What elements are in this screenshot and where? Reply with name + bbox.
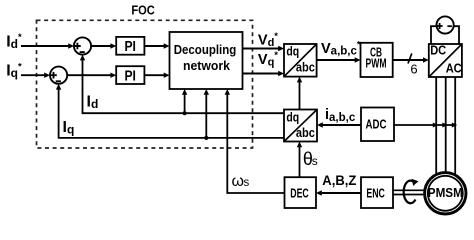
svg-text:PI: PI [124, 38, 136, 55]
svg-text:6: 6 [410, 61, 417, 76]
svg-text:FOC: FOC [131, 3, 155, 18]
svg-text:Vq*: Vq* [258, 50, 278, 68]
svg-text:abc: abc [296, 126, 315, 140]
theta_s wire U2 to U1 [299, 81, 301, 110]
svg-text:dq: dq [286, 45, 299, 59]
bus slash (6 lines) [408, 53, 412, 63]
wire PI2 to decoupling network [144, 74, 165, 76]
svg-text:DEC: DEC [290, 186, 309, 201]
junction Id to decoupling [183, 111, 187, 115]
svg-text:PWM: PWM [366, 56, 387, 71]
svg-text:Decoupling: Decoupling [174, 43, 237, 57]
motor shaft [393, 189, 424, 191]
ENC block [361, 177, 393, 208]
phase line a [435, 77, 437, 176]
wire ADC to abc/dq transform [321, 124, 361, 126]
wire U1 to CB PWM [317, 59, 357, 61]
DEC block [285, 177, 317, 208]
dq to abc transform U1 [284, 44, 317, 77]
wire Id* to summing junction S1 [21, 45, 69, 47]
FOC dashed boundary [37, 20, 253, 148]
svg-text:s: s [312, 154, 318, 168]
svg-text:s: s [244, 177, 250, 189]
svg-text:DC: DC [430, 43, 447, 58]
svg-text:Iq: Iq [63, 119, 75, 137]
wire Vd* decoupling to dq/abc [243, 48, 281, 50]
svg-text:Vd*: Vd* [258, 31, 278, 49]
PI controller PI1 [116, 37, 144, 55]
omega_s wire DEC to decoupling network [227, 94, 284, 194]
svg-text:Va,b,c*: Va,b,c* [321, 40, 361, 58]
svg-text:Iq*: Iq* [6, 61, 22, 80]
svg-text:dq: dq [286, 110, 299, 124]
DC/AC inverter block [429, 44, 462, 77]
wire ENC to DEC [320, 192, 361, 194]
wire DC source to inverter [431, 26, 459, 44]
phase line c [454, 77, 456, 176]
svg-text:Id: Id [87, 93, 99, 111]
wire S2 to PI2 [67, 74, 112, 76]
CB PWM block [361, 43, 393, 77]
wire Iq* to summing junction S2 [21, 74, 45, 76]
ADC block [361, 108, 394, 142]
motor PMSM [425, 173, 466, 214]
DC source V1 [437, 16, 454, 33]
svg-text:PMSM: PMSM [428, 185, 463, 200]
summing junction S2 [50, 67, 67, 84]
junction Iq to decoupling [204, 136, 208, 140]
feedback wire Iq [59, 88, 284, 138]
rotation arrow [404, 181, 416, 204]
svg-text:ia,b,c: ia,b,c [325, 107, 356, 124]
svg-text:ADC: ADC [366, 116, 387, 131]
current tap wire to ADC [394, 124, 455, 126]
svg-text:PI: PI [124, 67, 136, 84]
svg-text:ENC: ENC [366, 186, 385, 201]
svg-text:A,B,Z: A,B,Z [322, 172, 356, 188]
theta_s wire DEC to U2 [299, 146, 301, 177]
wire PI1 to decoupling network [144, 45, 165, 47]
decoupling network block [170, 32, 243, 89]
svg-text:ω: ω [232, 173, 245, 190]
summing junction S1 [74, 37, 91, 54]
svg-text:Id*: Id* [6, 32, 22, 51]
phase line b [445, 77, 447, 173]
svg-text:abc: abc [296, 61, 315, 75]
wire Vq* decoupling to dq/abc [243, 73, 281, 75]
wire CB PWM to DC/AC inverter [393, 59, 425, 61]
svg-text:network: network [183, 59, 230, 73]
PI controller PI2 [116, 66, 144, 84]
svg-text:AC: AC [446, 60, 463, 75]
abc to dq transform U2 [284, 110, 317, 142]
feedback wire Id [83, 59, 285, 114]
wire S1 to PI1 [91, 45, 112, 47]
